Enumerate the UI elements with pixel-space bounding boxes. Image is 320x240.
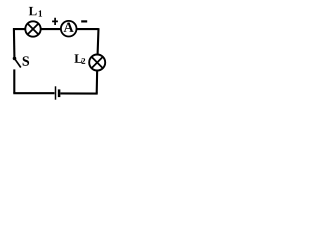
wire bottom right (battery to bottom-right corner) <box>60 92 97 94</box>
label L1 <box>29 7 42 17</box>
wire left lower (switch bottom terminal to bottom-left corner) <box>13 69 15 93</box>
label L2 <box>74 54 85 64</box>
wire bottom left (corner to battery) <box>13 92 54 94</box>
battery B1 <box>56 86 60 99</box>
lamp L1 <box>25 21 40 36</box>
wire right (top-right corner down to bottom-right corner) <box>97 28 99 93</box>
switch S <box>13 57 21 68</box>
wire left upper (top-left corner down to switch) <box>13 28 16 57</box>
minus polarity label <box>81 20 87 22</box>
wire top (from top-left corner to top-right corner) <box>13 28 99 30</box>
label S <box>23 56 29 65</box>
lamp L2 <box>89 55 105 71</box>
ammeter A <box>61 21 77 37</box>
plus polarity label <box>52 18 58 25</box>
